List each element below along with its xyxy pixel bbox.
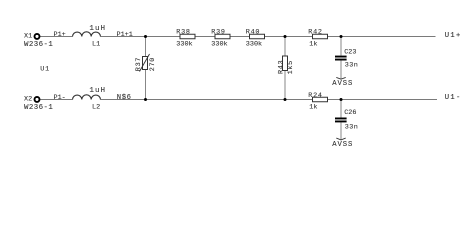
svg-text:R40: R40	[246, 28, 260, 36]
svg-text:X2: X2	[24, 96, 32, 104]
svg-text:C26: C26	[344, 109, 356, 117]
svg-text:AVSS: AVSS	[332, 141, 353, 149]
svg-text:1k: 1k	[309, 41, 317, 49]
svg-text:1uH: 1uH	[89, 25, 106, 33]
svg-text:P1+: P1+	[54, 31, 66, 39]
svg-text:R37: R37	[135, 57, 143, 71]
svg-text:1k5: 1k5	[287, 60, 295, 74]
svg-text:W236-1: W236-1	[24, 104, 53, 112]
svg-text:1uH: 1uH	[89, 87, 106, 95]
svg-text:AVSS: AVSS	[332, 80, 353, 88]
svg-text:R43: R43	[277, 60, 285, 74]
svg-text:270: 270	[149, 57, 157, 71]
svg-text:N$6: N$6	[117, 94, 132, 102]
svg-text:L1: L1	[92, 41, 100, 49]
svg-text:U1-: U1-	[445, 94, 462, 102]
svg-text:C23: C23	[344, 48, 356, 56]
svg-text:330k: 330k	[176, 41, 192, 49]
svg-text:33n: 33n	[345, 124, 358, 132]
svg-text:R38: R38	[176, 28, 190, 36]
svg-text:330k: 330k	[211, 41, 227, 49]
svg-text:W236-1: W236-1	[24, 41, 53, 49]
svg-text:33n: 33n	[345, 62, 358, 70]
svg-text:X1: X1	[24, 33, 32, 41]
svg-text:330k: 330k	[246, 41, 262, 49]
svg-text:L2: L2	[92, 104, 100, 112]
svg-text:P1+1: P1+1	[117, 31, 133, 39]
svg-text:1k: 1k	[309, 103, 317, 111]
svg-text:R24: R24	[308, 92, 322, 100]
svg-text:P1-: P1-	[54, 94, 66, 102]
svg-text:R42: R42	[308, 28, 322, 36]
svg-text:U1: U1	[40, 65, 50, 73]
svg-text:R39: R39	[211, 28, 225, 36]
svg-text:U1+: U1+	[445, 32, 462, 40]
